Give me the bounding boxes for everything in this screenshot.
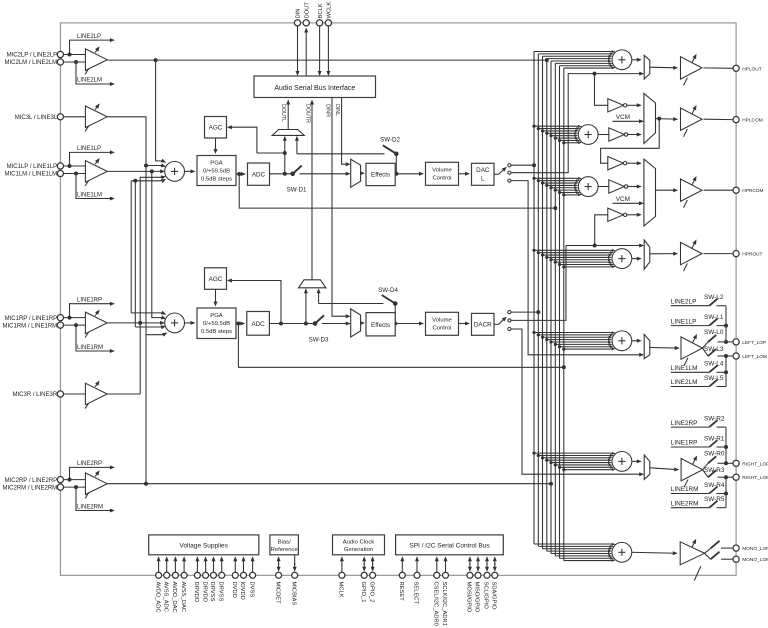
bus taps into RIGHT_LO summer fan xyxy=(534,452,610,454)
svg-text:DINL: DINL xyxy=(334,104,340,116)
svg-text:BCLK: BCLK xyxy=(318,3,324,18)
bus taps into HPRCOM summer fan xyxy=(534,177,577,179)
wire SW-D1 to effects mux xyxy=(300,173,349,175)
block Volume Control right xyxy=(426,312,459,335)
summing amp RIGHT_LO xyxy=(612,452,632,472)
svg-text:AVSS_DAC: AVSS_DAC xyxy=(180,582,186,613)
wire AGC-L monitor feed xyxy=(229,127,257,153)
svg-text:AGC: AGC xyxy=(209,276,223,283)
branch LINE1RM xyxy=(76,325,112,351)
svg-text:Generation: Generation xyxy=(344,547,373,553)
pin GPIO_1 xyxy=(361,572,367,578)
wire HPROUT mux to driver xyxy=(650,253,676,255)
pin MISO/GPIO xyxy=(475,572,481,578)
wire HPRCOM summer to buffer xyxy=(598,186,609,188)
wire ADC-R output xyxy=(269,323,315,325)
wire PGA-L bypass to bus xyxy=(239,174,555,208)
svg-text:Control: Control xyxy=(433,176,452,182)
amplifier MIC2L input PGA xyxy=(85,49,107,71)
svg-text:ADC: ADC xyxy=(252,172,266,179)
svg-text:MIC3L / LINE3L: MIC3L / LINE3L xyxy=(15,115,58,121)
mux DOUTR select xyxy=(299,280,326,288)
wire AGC-R monitor feed xyxy=(229,281,281,324)
svg-text:HPRCOM: HPRCOM xyxy=(742,188,763,194)
pin MONO_LOM xyxy=(733,556,739,562)
wire HPRCOM mux to driver xyxy=(656,189,676,191)
block Audio Serial Bus Interface xyxy=(254,76,376,98)
pin GPIO_2 xyxy=(370,572,376,578)
pin BCLK xyxy=(317,20,323,26)
svg-text:LINE2LP: LINE2LP xyxy=(671,298,697,305)
switch MONO_LOP xyxy=(705,548,711,553)
mux HPRCOM select xyxy=(644,159,656,226)
svg-text:Effects: Effects xyxy=(371,172,390,179)
summing amp HPLCOM xyxy=(578,125,598,145)
wire cross riser outer xyxy=(130,181,132,313)
svg-text:LINE2LP: LINE2LP xyxy=(77,34,101,40)
svg-text:MONO_LOP: MONO_LOP xyxy=(742,546,768,552)
wire DIN to serial interface xyxy=(297,26,299,74)
amplifier MIC3L input PGA xyxy=(85,106,107,128)
pin LEFT_LOM xyxy=(733,353,739,359)
wire driver to HPROUT pin xyxy=(704,253,733,255)
wire PGA-R to ADC-R xyxy=(236,323,243,325)
svg-text:Volume: Volume xyxy=(432,168,452,174)
svg-text:LINE2LM: LINE2LM xyxy=(77,78,102,84)
wire PGA-R bypass to bus xyxy=(238,324,563,368)
wire HPLCOM wrap to HPRCOM buffer xyxy=(601,119,660,164)
svg-text:MOSI/GPIO: MOSI/GPIO xyxy=(466,582,472,613)
block SPI/I2C Serial Control Bus xyxy=(396,535,504,555)
switch DAC-L output selector xyxy=(494,173,499,175)
wire SW-D2 to effects output xyxy=(395,154,397,174)
wire effects-R mux to Effects-R xyxy=(361,322,363,324)
summing amp MONO_LO xyxy=(612,542,632,562)
wire LEFT_LO mux to driver xyxy=(650,347,678,350)
svg-text:SW-R5: SW-R5 xyxy=(704,496,725,503)
branch LINE2LM xyxy=(76,62,112,84)
pin MIC3R/LINE3R xyxy=(57,391,63,397)
wire ADC-L branch to DOUTL mux xyxy=(284,138,286,174)
pin MIC1RM/LINE1RM xyxy=(57,322,63,328)
wire MIC2L riser to left ADC mixer xyxy=(156,60,163,161)
wire AGC-L to PGA-L xyxy=(215,138,217,152)
svg-text:Control: Control xyxy=(433,326,452,332)
bus vertical lines xyxy=(533,52,535,545)
wire switch collector upper R xyxy=(725,427,727,463)
svg-text:SW-L0: SW-L0 xyxy=(704,329,724,336)
svg-text:LEFT_LOP: LEFT_LOP xyxy=(742,340,766,346)
wire VCM to HPLCOM mux xyxy=(613,120,642,122)
pin WCLK xyxy=(325,20,331,26)
svg-text:PGA: PGA xyxy=(210,160,223,166)
svg-text:RESET: RESET xyxy=(398,582,404,602)
block DACR xyxy=(472,313,495,335)
wire SW-D3 to effects mux xyxy=(322,323,348,325)
svg-text:SCL/GPIO: SCL/GPIO xyxy=(483,582,489,610)
wire BCLK to serial interface xyxy=(319,26,321,74)
svg-text:SW-L5: SW-L5 xyxy=(704,375,724,382)
pin MIC2LP/LINE2LP xyxy=(57,51,63,57)
svg-text:0/+59.5dB: 0/+59.5dB xyxy=(203,321,230,327)
svg-text:Effects: Effects xyxy=(371,322,390,329)
svg-text:AGC: AGC xyxy=(209,125,223,132)
wire SW-D2 line xyxy=(297,153,385,155)
pin DRVSS xyxy=(219,572,225,578)
wire tap to HPLCOM buffer xyxy=(595,74,608,106)
svg-text:LINE1LM: LINE1LM xyxy=(671,365,698,372)
block AGC right xyxy=(205,268,227,290)
svg-text:SDA/GPIO: SDA/GPIO xyxy=(491,582,497,611)
switch SW-D4 xyxy=(393,301,398,306)
pin DRVSS xyxy=(211,572,217,578)
pin RIGHT_LOM xyxy=(733,474,739,480)
svg-text:WCLK: WCLK xyxy=(327,2,333,19)
chip boundary xyxy=(60,23,736,575)
wire Volume Control L to DAC L xyxy=(459,173,468,175)
wire DAC L mid contact to HPLOUT mux xyxy=(511,74,642,173)
svg-text:DRVSS: DRVSS xyxy=(209,582,215,602)
wire driver to HPRCOM pin xyxy=(704,189,733,191)
svg-text:SW-L1: SW-L1 xyxy=(704,314,724,321)
svg-text:VCM: VCM xyxy=(616,196,630,203)
wire MIC2L output to bus xyxy=(107,59,544,61)
wire DOUTR to serial interface xyxy=(311,102,313,280)
svg-text:SCLK/I2C_ADR1: SCLK/I2C_ADR1 xyxy=(441,582,447,626)
svg-text:MICBIAS: MICBIAS xyxy=(290,582,296,606)
amplifier MIC2R input PGA xyxy=(85,473,107,495)
svg-text:Bias/: Bias/ xyxy=(278,539,291,545)
svg-text:SW-R4: SW-R4 xyxy=(704,482,725,489)
pin MIC1LP/LINE1LP xyxy=(57,163,63,169)
svg-text:SELECT: SELECT xyxy=(413,582,419,605)
driver HPRCOM xyxy=(681,179,703,201)
wire Volume Control R to DACR xyxy=(459,323,468,325)
branch LINE2LP xyxy=(70,40,113,54)
bus taps into HPLCOM summer fan xyxy=(534,125,577,127)
wire buffer to HPLCOM mux xyxy=(627,104,640,106)
summing amp LEFT_LO xyxy=(612,331,632,351)
pin IOVDD xyxy=(241,572,247,578)
wire RIGHT_LO summer to mux xyxy=(632,460,640,462)
block Audio Clock Generation xyxy=(333,535,385,555)
svg-text:DOUTL: DOUTL xyxy=(280,104,286,122)
wire MIC3R riser to left ADC mixer xyxy=(140,177,163,394)
pin HPLOUT xyxy=(733,65,739,71)
svg-text:HPROUT: HPROUT xyxy=(742,252,762,258)
svg-text:LINE2LM: LINE2LM xyxy=(671,379,698,386)
pin MIC1RP/LINE1RP xyxy=(57,315,63,321)
pin MIC2LM/LINE2LM xyxy=(57,59,63,65)
wire ADC-L output xyxy=(270,173,293,175)
buffer HPRCOM summer xyxy=(609,180,625,193)
wire switch collector upper L xyxy=(725,306,727,342)
svg-text:Reference: Reference xyxy=(271,547,299,553)
svg-text:MIC1RM / LINE1RM: MIC1RM / LINE1RM xyxy=(3,323,58,329)
wire HPROUT summer to mux xyxy=(632,258,640,260)
wire HPLCOM summer to buffer xyxy=(598,134,609,136)
wire buffer to HPRCOM mux xyxy=(627,162,640,164)
svg-text:SW-R0: SW-R0 xyxy=(704,450,725,457)
pin DOUT xyxy=(303,20,309,26)
wire MIC3R output riser xyxy=(107,393,140,395)
wire DAC L top contact to bus xyxy=(511,164,534,166)
mux HPLCOM select xyxy=(644,93,656,143)
pin DVDD xyxy=(232,572,238,578)
pin DRVDD xyxy=(194,572,200,578)
mux HPROUT select xyxy=(644,240,650,269)
amplifier MIC1R input PGA xyxy=(85,312,107,334)
wire Effects-R to Volume Control R xyxy=(395,323,421,325)
wire DOUTL to serial interface xyxy=(287,102,289,130)
pin AVSS_DAC xyxy=(181,572,187,578)
svg-text:DVDD: DVDD xyxy=(231,582,237,598)
wire Effects-L to Volume Control L xyxy=(395,173,421,175)
wire MIC3L output riser xyxy=(107,117,163,166)
wire mono driver adjust slash xyxy=(694,566,701,580)
block PGA left xyxy=(197,156,236,186)
wire MIC2LP input xyxy=(64,54,86,56)
svg-text:SW-L2: SW-L2 xyxy=(704,294,724,301)
svg-text:MIC2RP / LINE2RP: MIC2RP / LINE2RP xyxy=(5,478,58,484)
svg-text:LINE1RM: LINE1RM xyxy=(671,486,699,493)
wire MIC3R input xyxy=(64,393,86,395)
pin MIC2RM/LINE2RM xyxy=(57,484,63,490)
svg-text:DRVDD: DRVDD xyxy=(193,582,199,603)
wire SW-D4 line xyxy=(319,303,384,305)
switch SW-D2 xyxy=(394,152,399,157)
wire MIC1LP input xyxy=(64,165,86,167)
mux HPLOUT select xyxy=(644,55,650,79)
svg-text:LINE2RP: LINE2RP xyxy=(77,461,102,467)
svg-text:SW-D1: SW-D1 xyxy=(287,187,307,194)
pin LEFT_LOP xyxy=(733,339,739,345)
pin RESET xyxy=(399,572,405,578)
block Volume Control left xyxy=(426,162,459,185)
pin MOSI/GPIO xyxy=(467,572,473,578)
driver LEFT_LO xyxy=(681,337,703,359)
svg-text:0/+59.5dB: 0/+59.5dB xyxy=(203,168,230,174)
driver HPLOUT xyxy=(681,57,703,79)
summing mixer right ADC input xyxy=(165,313,185,333)
svg-text:Volume: Volume xyxy=(432,318,452,324)
pin SDA/GPIO xyxy=(492,572,498,578)
svg-text:MICDET: MICDET xyxy=(274,582,280,605)
branch LINE1LM xyxy=(76,174,112,199)
bus taps into LEFT_LO summer fan xyxy=(534,332,610,334)
pin DVSS xyxy=(250,572,256,578)
driver MONO_LO xyxy=(680,542,704,565)
wire PGA-L to ADC-L xyxy=(236,173,244,175)
wire MIC1L output to left ADC mixer xyxy=(107,170,162,172)
branch LINE1RP xyxy=(70,304,113,318)
svg-text:IOVDD: IOVDD xyxy=(239,582,245,600)
wire DACR bottom contact to RIGHT_LO mux xyxy=(511,329,642,474)
svg-text:SPI / I2C Serial Control Bus: SPI / I2C Serial Control Bus xyxy=(409,542,490,549)
svg-text:GPIO_2: GPIO_2 xyxy=(368,582,374,603)
wire driver to HPLOUT pin xyxy=(704,67,733,69)
svg-text:LEFT_LOM: LEFT_LOM xyxy=(742,354,767,360)
pin SCL/GPIO xyxy=(484,572,490,578)
wire switch collector lower L xyxy=(725,356,727,387)
driver HPLCOM xyxy=(681,108,703,130)
svg-text:HPLCOM: HPLCOM xyxy=(742,118,763,124)
branch LINE2RP xyxy=(70,467,113,479)
wire switch collector lower R xyxy=(725,477,727,508)
wire cross riser to left mixer xyxy=(131,180,163,182)
svg-text:DAC: DAC xyxy=(476,167,490,174)
wire buffer to HPRCOM mux input xyxy=(628,186,640,188)
wire DAC L bottom contact to LEFT_LO mux xyxy=(511,181,642,355)
buffer HPLCOM to HPRCOM xyxy=(608,157,624,170)
svg-text:MCLK: MCLK xyxy=(338,582,344,598)
svg-text:CSEL/I2C_ADR0: CSEL/I2C_ADR0 xyxy=(433,582,439,626)
bus corners into MONO summer fan xyxy=(534,543,610,545)
block Bias/Reference xyxy=(270,535,299,555)
svg-text:SW-R2: SW-R2 xyxy=(704,415,725,422)
svg-text:LINE1LM: LINE1LM xyxy=(77,192,102,198)
summing amp HPRCOM xyxy=(578,177,598,197)
wire mixer to PGA-R xyxy=(184,322,193,324)
svg-text:MIC1LP / LINE1LP: MIC1LP / LINE1LP xyxy=(7,164,58,170)
bus corners into HPLOUT summer fan xyxy=(534,51,610,53)
svg-text:LINE2RM: LINE2RM xyxy=(671,500,699,507)
amplifier MIC3R input PGA xyxy=(85,383,107,405)
svg-text:L: L xyxy=(481,175,485,182)
svg-text:LINE1RP: LINE1RP xyxy=(77,298,102,304)
svg-text:ADC: ADC xyxy=(251,321,265,328)
pin SELECT xyxy=(414,572,420,578)
svg-text:DRVSS: DRVSS xyxy=(217,582,223,602)
pin DIN xyxy=(294,20,300,26)
branch LINE1LP xyxy=(70,152,113,166)
buffer HPLCOM summer xyxy=(609,128,625,141)
wire MIC3L riser to right ADC mixer xyxy=(145,166,147,484)
driver RIGHT_LO xyxy=(681,459,703,481)
svg-text:LINE2RP: LINE2RP xyxy=(671,420,698,427)
pin HPROUT xyxy=(733,251,739,257)
svg-text:LINE2RM: LINE2RM xyxy=(77,504,103,510)
summing mixer left ADC input xyxy=(165,162,185,182)
summing amp HPLOUT xyxy=(612,50,632,70)
mux effects-L input select xyxy=(351,159,361,187)
buffer HPLOUT to HPLCOM xyxy=(608,99,624,112)
mux DOUTL select xyxy=(272,130,304,136)
svg-text:AVSS_ADC: AVSS_ADC xyxy=(162,582,168,613)
svg-text:MIC1RP / LINE1RP: MIC1RP / LINE1RP xyxy=(5,316,58,322)
svg-text:Audio Serial Bus Interface: Audio Serial Bus Interface xyxy=(274,85,355,92)
wire mixer to PGA-L xyxy=(184,170,193,172)
wire DOUTR mux input from SW line xyxy=(318,291,320,304)
wire HPLOUT summer to mux xyxy=(632,59,640,61)
wire AGC-R to PGA-R xyxy=(215,289,217,304)
svg-text:DRVDD: DRVDD xyxy=(201,582,207,603)
wire MIC2R output to bus xyxy=(107,483,551,485)
svg-text:AVDD_ADC: AVDD_ADC xyxy=(154,582,160,613)
wire effects-L mux to Effects-L xyxy=(361,172,363,174)
switch SW-D3 xyxy=(313,321,318,326)
svg-text:DOUTR: DOUTR xyxy=(304,104,310,123)
wire MIC1L riser to right ADC mixer xyxy=(152,171,163,317)
svg-text:LINE1LP: LINE1LP xyxy=(671,318,697,325)
svg-text:HPLOUT: HPLOUT xyxy=(742,66,762,72)
svg-text:0.5dB steps: 0.5dB steps xyxy=(201,176,232,182)
switch SW-D1 xyxy=(290,172,295,177)
wire buffer to HPRCOM mux bottom xyxy=(627,214,640,216)
svg-text:DIN: DIN xyxy=(296,9,302,19)
wire MIC1RM input xyxy=(64,324,86,326)
svg-text:DOUT: DOUT xyxy=(304,2,310,19)
pin MICDET xyxy=(276,572,282,578)
svg-text:MIC2LP / LINE2LP: MIC2LP / LINE2LP xyxy=(7,53,58,59)
wire HPLCOM mux to driver xyxy=(656,118,676,121)
pin AVSS_ADC xyxy=(164,572,170,578)
svg-text:MISO/GPIO: MISO/GPIO xyxy=(474,582,480,613)
block Effects left xyxy=(366,163,395,185)
wire DINR from serial interface xyxy=(332,98,348,317)
pin MIC1LM/LINE1LM xyxy=(57,170,63,176)
block PGA right xyxy=(197,308,236,339)
buffer HPROUT to HPRCOM xyxy=(608,208,624,221)
svg-text:SW-D2: SW-D2 xyxy=(380,137,400,144)
svg-text:LINE1RM: LINE1RM xyxy=(77,345,103,351)
svg-text:MONO_LOM: MONO_LOM xyxy=(742,557,768,563)
svg-text:MIC2RM / LINE2RM: MIC2RM / LINE2RM xyxy=(3,485,58,491)
svg-text:GPIO_1: GPIO_1 xyxy=(360,582,366,603)
svg-text:SW-D3: SW-D3 xyxy=(309,337,329,344)
svg-text:SW-D4: SW-D4 xyxy=(378,287,398,294)
wire riser tap to right ADC mixer xyxy=(146,334,164,336)
block ADC left xyxy=(248,163,270,185)
wire MIC1R output to right ADC mixer xyxy=(107,322,162,324)
svg-text:SW-R1: SW-R1 xyxy=(704,435,725,442)
wire LEFT_LO summer to mux xyxy=(632,340,640,342)
pin RIGHT_LOP xyxy=(733,460,739,466)
wire ADC-R branch to DOUTR mux xyxy=(305,291,307,324)
wire MIC1LM input xyxy=(64,173,86,175)
svg-text:MIC2LM / LINE2LM: MIC2LM / LINE2LM xyxy=(5,60,58,66)
svg-text:DINR: DINR xyxy=(324,104,330,117)
wire MIC2LM input xyxy=(64,61,86,63)
svg-text:RIGHT_LOP: RIGHT_LOP xyxy=(742,461,768,467)
summing amp HPROUT xyxy=(612,249,632,269)
svg-text:Voltage Supplies: Voltage Supplies xyxy=(179,542,228,549)
wire DACR mid contact to HPROUT mux xyxy=(511,246,642,321)
block Voltage Supplies xyxy=(149,535,259,555)
svg-text:MIC3R / LINE3R: MIC3R / LINE3R xyxy=(13,392,58,398)
switch MONO_LOM xyxy=(705,553,711,559)
wire MIC3L input xyxy=(64,116,86,118)
wire serial interface to DOUT xyxy=(305,30,307,76)
block Effects right xyxy=(366,313,395,336)
wire cross riser inner xyxy=(134,181,136,327)
block DAC L xyxy=(472,163,495,185)
svg-text:VCM: VCM xyxy=(616,114,630,121)
wire HPLOUT mux to driver xyxy=(650,66,676,69)
wire VCM to HPRCOM mux xyxy=(613,202,642,204)
svg-text:DVSS: DVSS xyxy=(248,582,254,598)
svg-text:AVDD_DAC: AVDD_DAC xyxy=(171,582,177,613)
bus taps into HPROUT summer fan xyxy=(534,249,610,251)
branch LINE2RM xyxy=(76,487,112,510)
svg-text:Audio Clock: Audio Clock xyxy=(343,539,374,545)
wire MIC2RP input xyxy=(64,479,86,481)
pin MIC2RP/LINE2RP xyxy=(57,477,63,483)
amplifier MIC1L input PGA xyxy=(85,161,107,183)
pin DRVDD xyxy=(203,572,209,578)
pin AVDD_DAC xyxy=(172,572,178,578)
pin AVDD_ADC xyxy=(156,572,162,578)
